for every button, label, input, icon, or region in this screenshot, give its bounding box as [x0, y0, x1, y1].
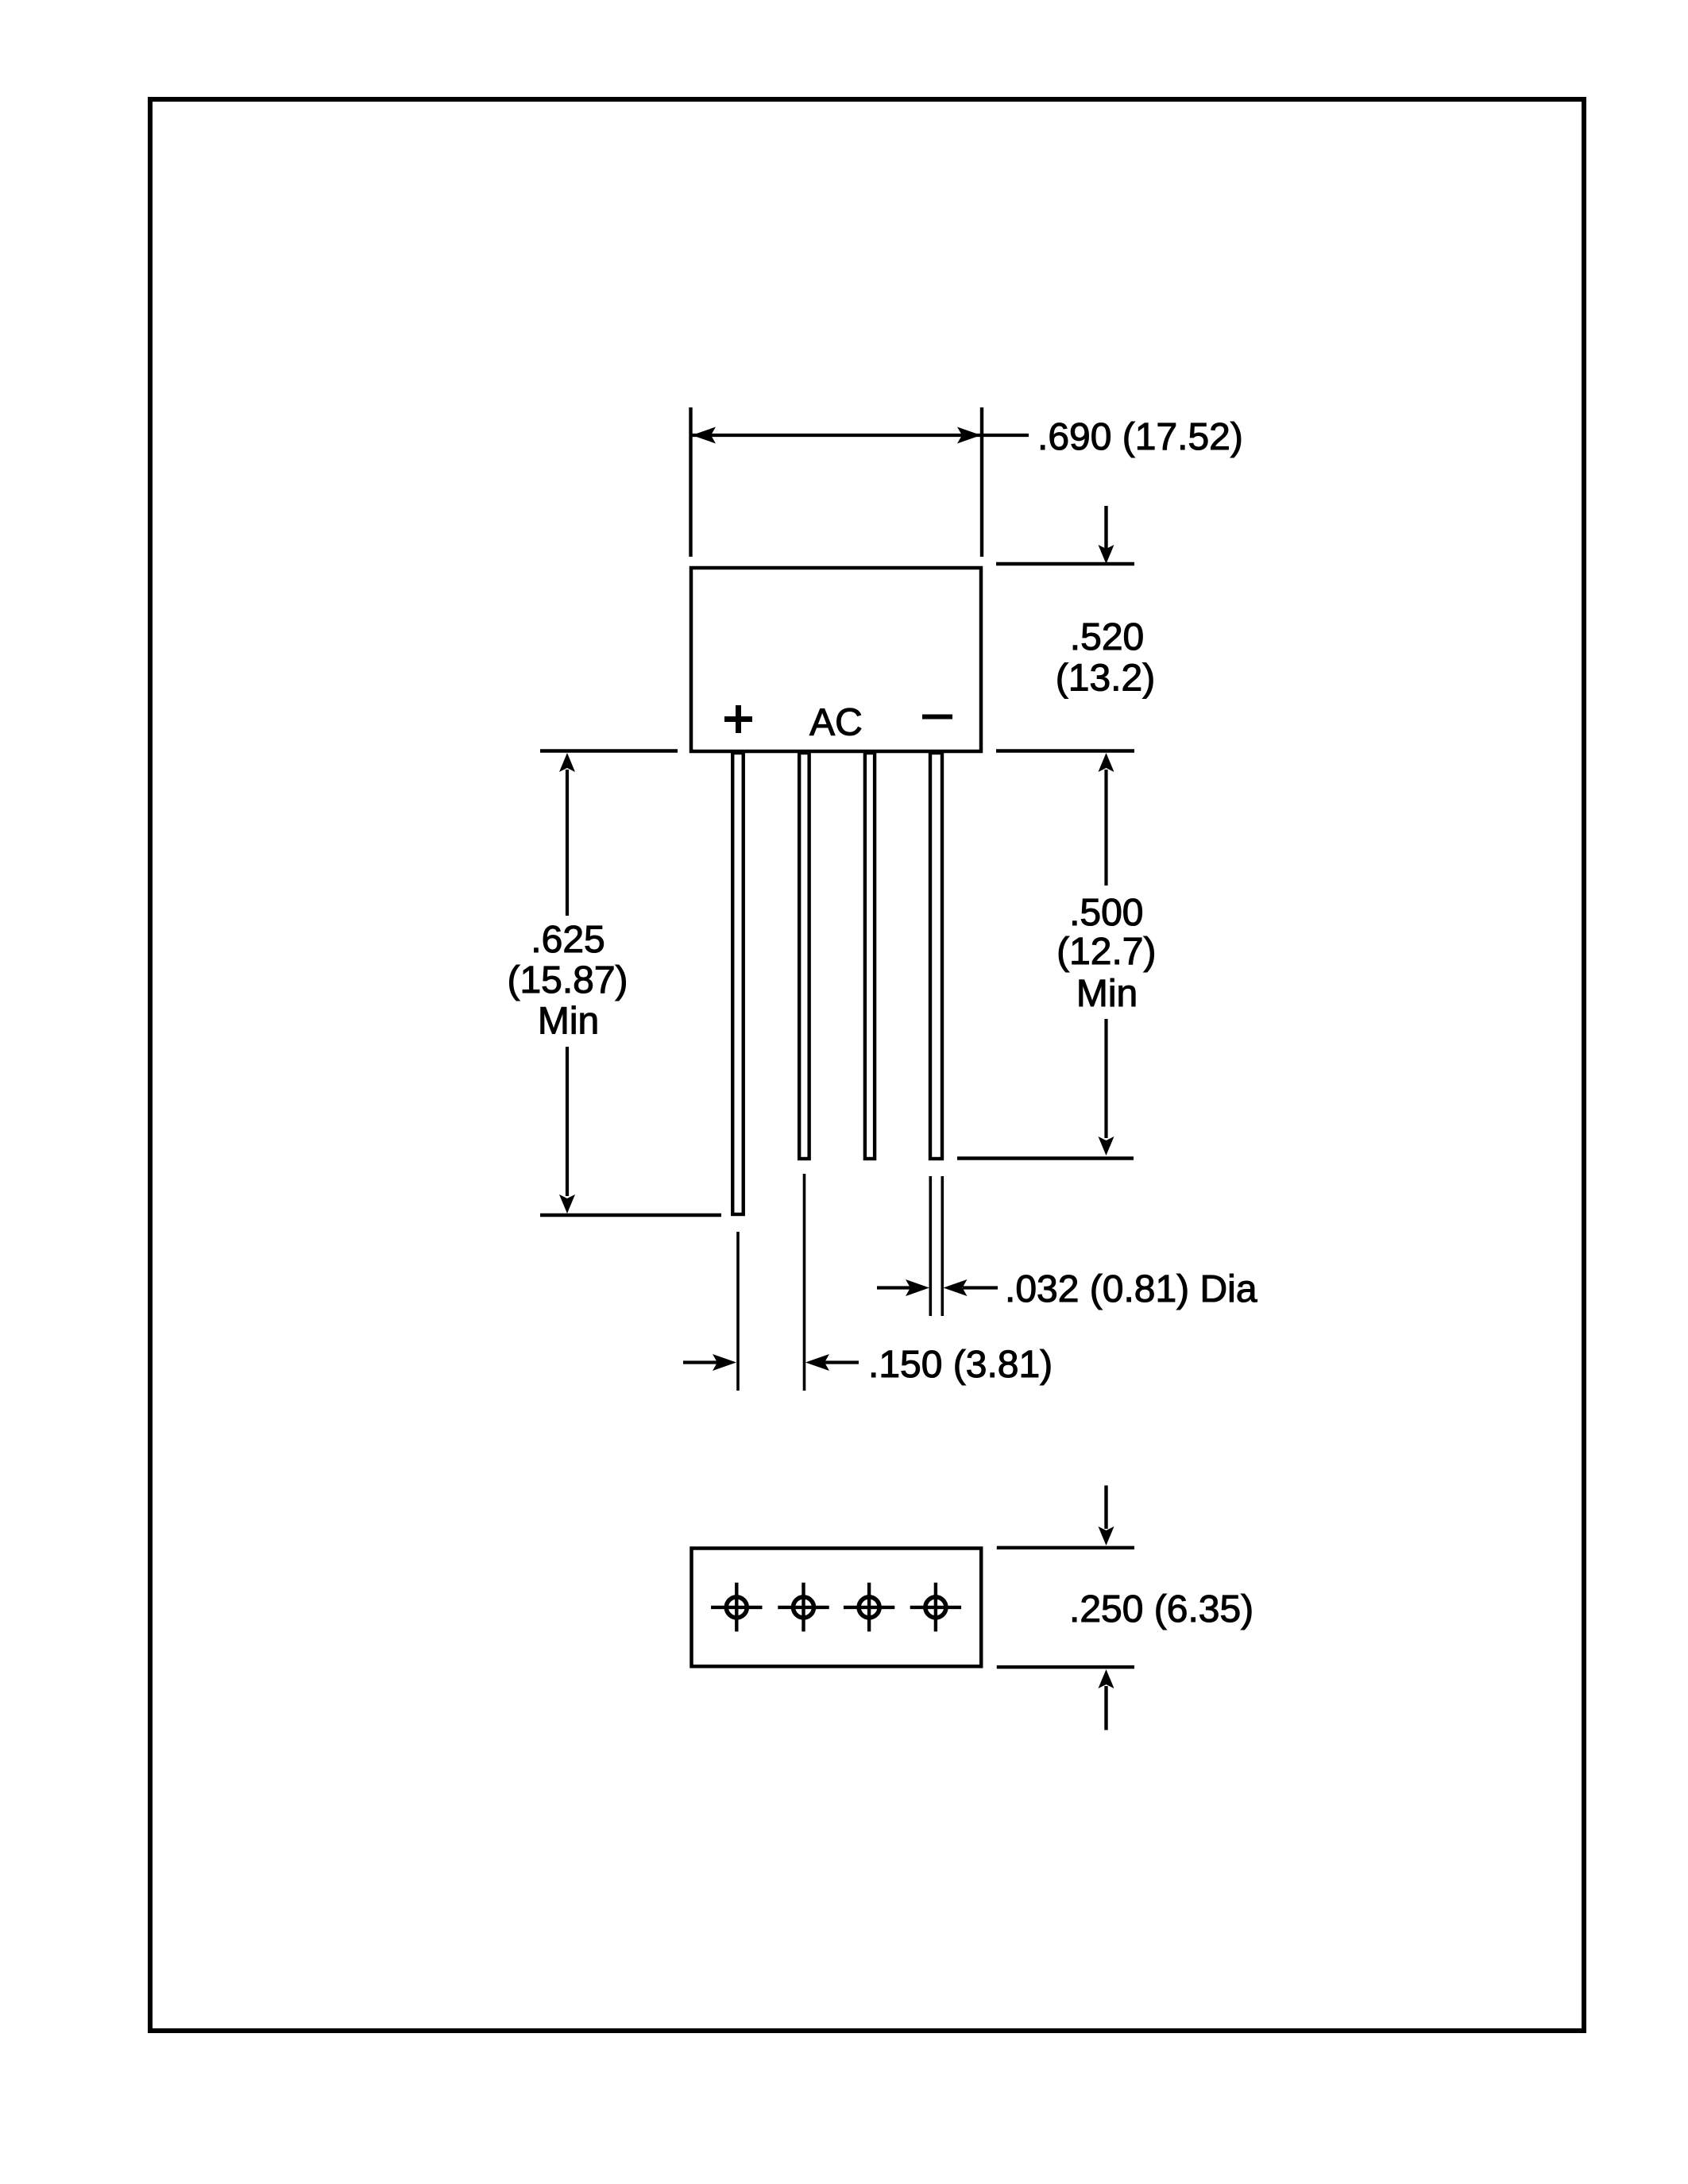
svg-text:Min: Min: [538, 1001, 599, 1043]
svg-text:(13.2): (13.2): [1056, 658, 1155, 700]
svg-text:.690 (17.52): .690 (17.52): [1037, 416, 1243, 458]
svg-text:.520: .520: [1070, 616, 1144, 658]
svg-text:(15.87): (15.87): [507, 959, 628, 1001]
svg-text:Min: Min: [1076, 973, 1138, 1015]
svg-text:.500: .500: [1069, 892, 1143, 934]
svg-text:AC: AC: [809, 702, 863, 744]
svg-text:.150 (3.81): .150 (3.81): [868, 1344, 1053, 1386]
svg-text:(12.7): (12.7): [1056, 931, 1156, 973]
svg-text:.032 (0.81) Dia: .032 (0.81) Dia: [1005, 1268, 1257, 1310]
svg-text:.625: .625: [531, 919, 605, 961]
svg-text:.250 (6.35): .250 (6.35): [1069, 1588, 1253, 1630]
